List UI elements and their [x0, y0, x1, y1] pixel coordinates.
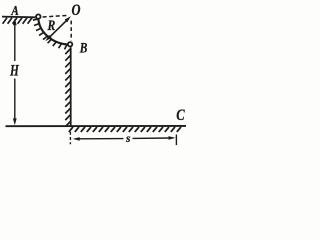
dashed construction line pin to O: [43, 15, 67, 17]
dashed construction line O to B: [70, 21, 72, 41]
H dimension line with arrowheads: [14, 24, 16, 119]
svg-text:A: A: [11, 3, 19, 18]
svg-text:R: R: [47, 18, 56, 34]
ground line: [6, 125, 187, 127]
s dimension arrow line (left part): [79, 138, 124, 140]
ceiling hatching: [3, 18, 32, 24]
wall below B: [70, 47, 72, 126]
svg-text:C: C: [176, 107, 185, 124]
pin circle at top of arc (on ceiling): [36, 14, 40, 18]
svg-text:H: H: [9, 62, 19, 79]
radius arrow R (double headed, O to arc): [48, 19, 69, 39]
curved chute from ceiling pin to B (quarter arc): [38, 17, 70, 45]
svg-text:B: B: [79, 40, 87, 56]
s dimension arrow line (right part): [133, 137, 170, 139]
ceiling line at support A: [2, 16, 35, 19]
svg-text:O: O: [72, 2, 81, 19]
s dimension: left extension tick (dashed, under wall): [69, 132, 71, 144]
pin circle at B: [68, 42, 72, 46]
ground hatching: [69, 127, 181, 132]
wall hatching: [65, 49, 70, 127]
svg-text:s: s: [125, 133, 131, 145]
s dimension: right extension tick: [175, 135, 177, 146]
arc hatching: [33, 19, 67, 50]
